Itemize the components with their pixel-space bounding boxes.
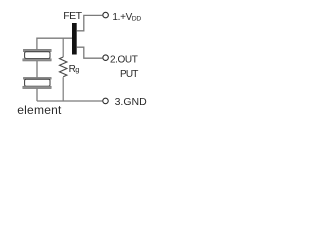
transistor FET channel bar [72,23,77,55]
element: bottom slab lower gray electrode [23,86,51,88]
element: bottom slab white dielectric box [25,79,50,86]
wire: ground bus to pin 3 [37,100,102,102]
wire: drain to pin 1 [77,15,103,30]
wire: source to pin 2 [77,47,103,58]
svg-text:element: element [17,103,62,117]
wire: Rg bottom drop to ground bus [62,77,64,101]
svg-text:PUT: PUT [120,69,138,80]
svg-text:FET: FET [63,10,82,22]
wire: Rg top drop from gate bus [62,38,64,57]
svg-text:1.+V: 1.+V [112,12,132,23]
wire: gate bus from element up and right to FET gate [37,38,72,49]
element: top slab lower gray electrode [23,59,51,61]
node pin 2 terminal circle [103,55,109,61]
svg-text:g: g [75,65,79,74]
wire: element down to ground bus [36,89,38,101]
node pin 1 terminal circle [103,12,109,18]
resistor Rg zigzag [60,57,67,77]
element: top slab upper gray electrode [23,49,51,51]
element: top slab white dielectric box [25,52,50,59]
svg-text:DD: DD [132,15,142,22]
svg-text:3.GND: 3.GND [115,96,148,108]
svg-text:2.OUT: 2.OUT [110,55,138,66]
node pin 3 terminal circle [103,98,109,104]
element: bottom slab upper gray electrode [23,77,51,79]
wire: between element plates [36,61,38,77]
